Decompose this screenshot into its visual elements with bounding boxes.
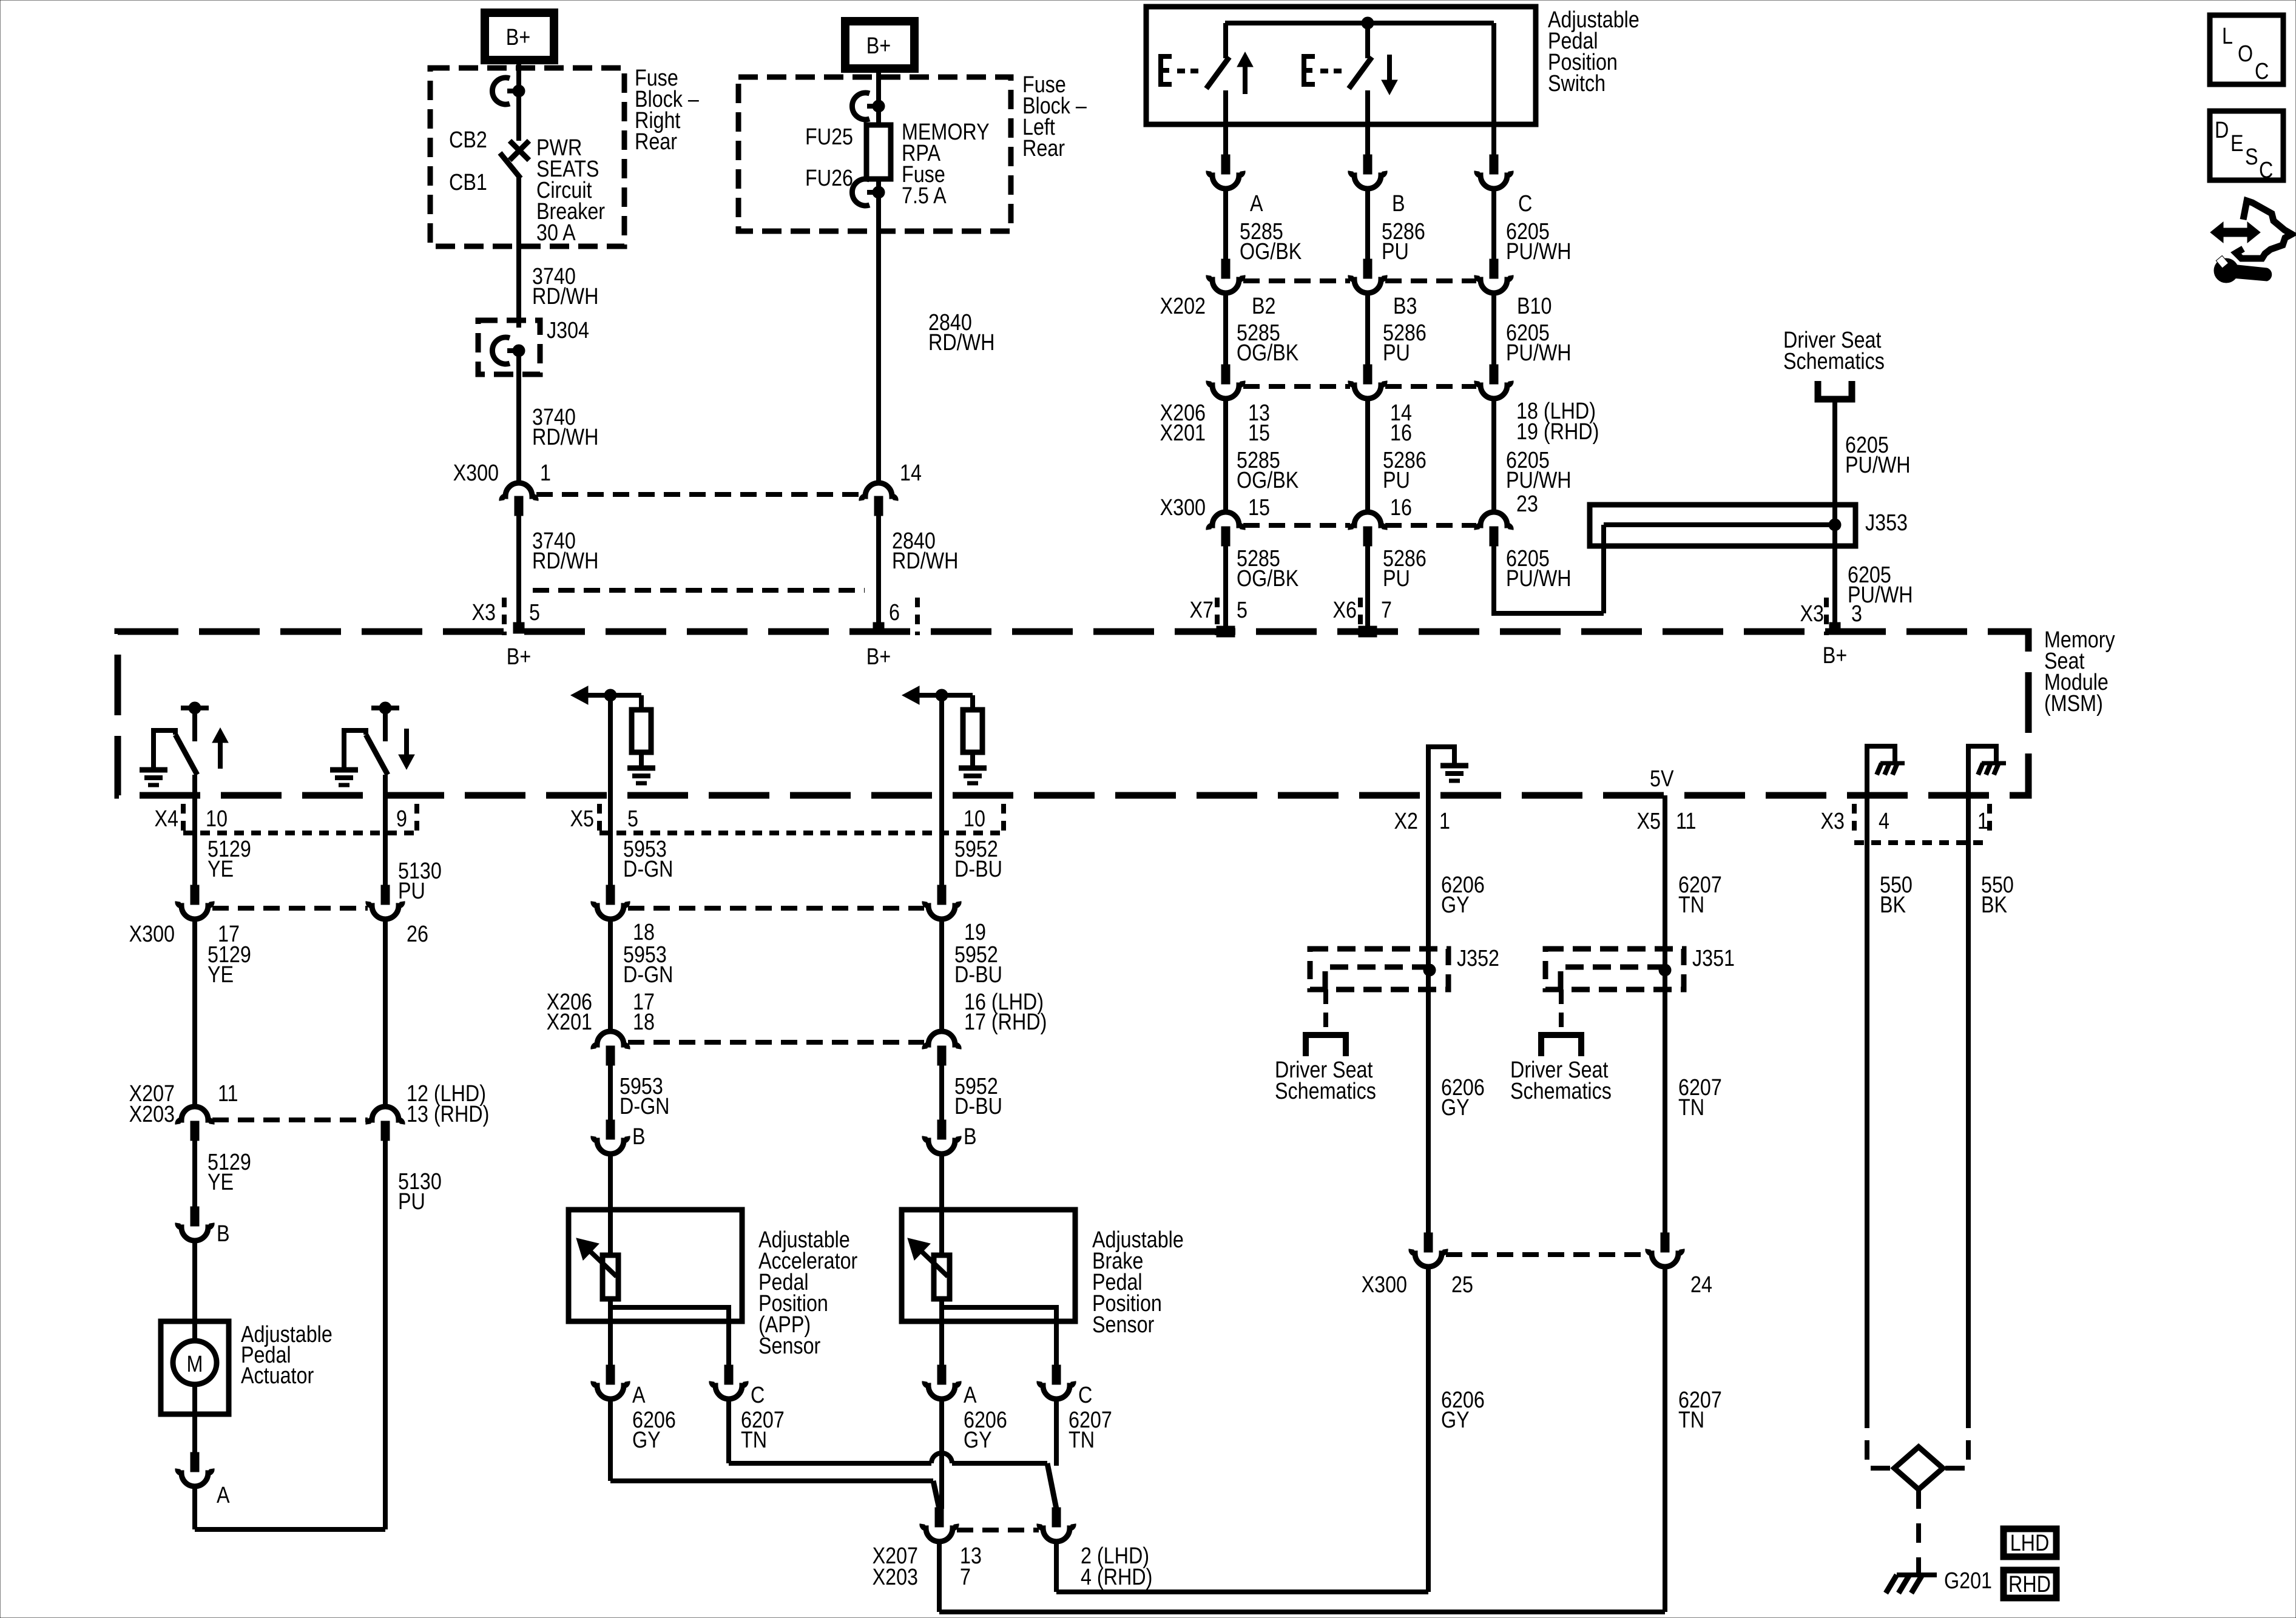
splice J351 outer dashed box: [1545, 949, 1684, 989]
svg-text:X300: X300: [1362, 1272, 1407, 1298]
svg-text:GY: GY: [964, 1428, 992, 1453]
wire X4-9 below MSM: [383, 795, 388, 889]
svg-text:30 A: 30 A: [536, 220, 576, 246]
switch 1 E terminal: [1161, 56, 1172, 84]
wire through J352: [1426, 950, 1431, 989]
svg-text:X5: X5: [1637, 809, 1661, 834]
svg-text:14: 14: [900, 460, 922, 486]
power symbol B+ (left rear): [845, 21, 914, 69]
fuse block - right rear dashed box: [430, 68, 624, 246]
wire through J353: [1832, 505, 1837, 546]
svg-text:L: L: [2222, 24, 2233, 49]
hop over brake A wire: [931, 1453, 952, 1463]
svg-text:C: C: [1518, 191, 1532, 217]
J304 dashed box: [478, 320, 540, 374]
X207-2 pin bar: [1052, 1508, 1061, 1527]
svg-text:X300: X300: [129, 922, 175, 947]
wire accel A to X207-13: [610, 1478, 933, 1483]
X202 pin B10 bar: [1490, 259, 1498, 278]
switch pin A wire: [1223, 124, 1228, 156]
wire B cup to accel sensor: [608, 1155, 613, 1210]
junction dot FU26: [873, 186, 885, 198]
svg-text:Rear: Rear: [1022, 136, 1065, 161]
splice diamond: [1894, 1447, 1943, 1489]
wire J353 to X3-3: [1832, 546, 1837, 629]
switch 2 contact wire: [1365, 90, 1370, 124]
pin bar X300-14: [874, 496, 883, 516]
svg-text:PU/WH: PU/WH: [1506, 468, 1572, 493]
svg-text:CB1: CB1: [449, 170, 487, 195]
svg-text:X3: X3: [1800, 601, 1824, 627]
switch 1 blade: [1206, 57, 1229, 89]
svg-text:11: 11: [218, 1081, 238, 1107]
wire pin 13 down: [937, 1543, 942, 1612]
up switch common elbow: [154, 730, 175, 770]
wire J351 to X300-24: [1663, 989, 1667, 1234]
brake pin C cup: [1039, 1381, 1073, 1399]
switch 2 down arrow: [1387, 55, 1392, 81]
X300 row dashed link 1-14: [536, 492, 861, 497]
down switch blade: [366, 735, 388, 775]
pin bar X300-1: [515, 496, 523, 516]
X202 pin B10 cup: [1477, 275, 1511, 293]
wire brake C down: [1054, 1400, 1059, 1466]
wire B10 to X206: [1491, 294, 1496, 366]
svg-text:18: 18: [633, 1010, 655, 1035]
wire 6205 into J353: [1604, 522, 1835, 527]
X300-23 dome: [1477, 512, 1511, 530]
wire accel C toward X207-2: [729, 1461, 931, 1466]
dashed drop X3-4 to splice: [1867, 1409, 1894, 1468]
switch pin C wire: [1491, 124, 1496, 156]
accel potentiometer rect: [603, 1255, 618, 1299]
svg-text:1: 1: [540, 460, 551, 486]
svg-text:X201: X201: [1160, 420, 1206, 446]
connector X206/X201 dashed row: [1243, 384, 1476, 389]
pin tick X7-5: [1217, 626, 1235, 637]
svg-text:4 (RHD): 4 (RHD): [1081, 1565, 1152, 1590]
driver output wire to border: [608, 695, 613, 795]
svg-text:X300: X300: [453, 460, 499, 486]
X300 row dashed link: [1243, 523, 1476, 528]
brake pin C bar: [1052, 1365, 1061, 1384]
svg-text:15: 15: [1248, 420, 1270, 446]
svg-text:9: 9: [396, 806, 407, 832]
X206 pin bar col A: [1221, 365, 1230, 384]
svg-text:X202: X202: [1160, 294, 1206, 319]
motor circle M: [192, 1321, 197, 1341]
svg-text:C: C: [1078, 1383, 1092, 1408]
switch 1 contact wire: [1223, 90, 1228, 124]
wire X206 to sensor B (brake): [939, 1065, 944, 1121]
switch 1 (pedal up) stem: [1223, 23, 1228, 58]
svg-text:LHD: LHD: [2010, 1531, 2050, 1556]
svg-text:YE: YE: [208, 962, 234, 988]
switch 2 blade: [1349, 57, 1372, 89]
X300 bottom dashed link 25-24: [1446, 1252, 1647, 1257]
accel pin C bar: [724, 1365, 733, 1384]
MSM switch (up) T-bar terminal: [181, 706, 209, 710]
separator X3-1: [1987, 804, 1992, 834]
wire B cup to brake sensor: [939, 1155, 944, 1210]
brake potentiometer wire in: [939, 1210, 944, 1255]
svg-text:PU/WH: PU/WH: [1506, 566, 1572, 592]
svg-text:B+: B+: [866, 33, 891, 59]
DESC box: [2210, 111, 2283, 180]
down switch wire to border: [383, 775, 388, 795]
svg-text:B: B: [632, 1124, 646, 1150]
svg-text:Schematics: Schematics: [1275, 1079, 1376, 1104]
splice J351 inner dashed path: [1561, 967, 1663, 989]
X206 pin cup col B: [1351, 381, 1385, 399]
X300 row dashed link 17-26: [212, 906, 368, 911]
wire B to X202: [1365, 189, 1370, 261]
svg-text:A: A: [217, 1483, 230, 1508]
driver link to resistor: [610, 693, 641, 698]
svg-text:RD/WH: RD/WH: [532, 284, 598, 309]
svg-text:B: B: [964, 1124, 977, 1150]
X300-15 pin bar: [1221, 527, 1230, 546]
wire X300-14 to X3-6: [876, 516, 881, 629]
wire X300-15 to X7-5: [1223, 546, 1228, 629]
resistor to ground: [963, 710, 982, 752]
wire X3-1 550 BK: [1966, 795, 1971, 1409]
svg-text:X4: X4: [155, 806, 178, 832]
svg-text:3: 3: [1851, 601, 1862, 627]
brake pin A cup: [925, 1381, 959, 1399]
wire brake A down to pin 13: [939, 1400, 944, 1509]
svg-text:7: 7: [1381, 598, 1392, 623]
junction dot output driver: [604, 689, 616, 701]
ground G201 chassis symbol: [1897, 1572, 1937, 1577]
svg-text:Sensor: Sensor: [758, 1333, 821, 1359]
svg-text:19: 19: [964, 920, 986, 945]
adjustable pedal position switch box: [1146, 7, 1536, 124]
X206-17 pin bar: [606, 1046, 615, 1065]
X300-18 cup: [593, 902, 627, 919]
junction dot on rail: [1362, 17, 1374, 29]
wire X300-26 to X207: [383, 920, 388, 1105]
dashed drop splice to G201: [1916, 1489, 1921, 1572]
svg-text:1: 1: [1439, 809, 1450, 834]
svg-text:B+: B+: [506, 25, 530, 50]
X207 bottom dashed link: [957, 1528, 1039, 1532]
svg-text:A: A: [964, 1383, 977, 1408]
svg-text:RD/WH: RD/WH: [928, 330, 994, 356]
wire X207-11 to actuator B: [192, 1141, 197, 1207]
wire pin 2 down: [1054, 1543, 1059, 1592]
X206 row dashed link (sensors): [628, 1040, 924, 1045]
X206 pin bar col B: [1363, 365, 1372, 384]
svg-text:Sensor: Sensor: [1092, 1312, 1155, 1338]
svg-text:RD/WH: RD/WH: [532, 548, 598, 574]
svg-text:TN: TN: [1678, 1095, 1704, 1121]
svg-text:B: B: [217, 1221, 230, 1247]
X300-26 pin bar: [381, 885, 390, 905]
svg-text:23: 23: [1516, 491, 1538, 517]
svg-text:BK: BK: [1880, 892, 1906, 918]
svg-text:OG/BK: OG/BK: [1237, 468, 1299, 493]
svg-text:19 (RHD): 19 (RHD): [1516, 419, 1599, 445]
svg-text:Rear: Rear: [635, 129, 677, 155]
switch 2 (pedal down) stem: [1365, 23, 1370, 58]
svg-text:10: 10: [964, 806, 985, 832]
X206-16 pin bar: [937, 1046, 946, 1065]
separator X3-6: [915, 598, 920, 635]
svg-text:5: 5: [1237, 598, 1248, 623]
actuator pin A bar: [191, 1452, 199, 1472]
up arrow (MSM switch): [218, 741, 223, 769]
brake pot elbow to pin C: [942, 1299, 1056, 1366]
svg-text:X6: X6: [1333, 598, 1357, 623]
circuit breaker blade CB1-CB2: [500, 153, 521, 178]
wire X300-24 down: [1663, 1268, 1667, 1612]
output driver arrow (wire x=1552): [902, 686, 919, 704]
X300-19 pin bar: [937, 885, 946, 905]
brake sensor pin B cup: [925, 1136, 959, 1154]
junction dot J351: [1659, 964, 1671, 976]
wire X4-10 below MSM: [192, 795, 197, 889]
MSM ground at X2-1: [1428, 747, 1454, 795]
wire actuator to pin A: [192, 1414, 197, 1454]
wire B2 to X206: [1223, 294, 1228, 366]
svg-text:GY: GY: [1441, 1095, 1470, 1121]
svg-text:PU: PU: [1382, 239, 1409, 265]
J352 dashed stub down: [1323, 989, 1328, 1030]
driver seat schematics bracket: [1818, 381, 1852, 399]
svg-text:Schematics: Schematics: [1510, 1079, 1612, 1104]
switch pin B bar: [1363, 155, 1372, 174]
svg-text:RD/WH: RD/WH: [532, 425, 598, 450]
svg-text:BK: BK: [1981, 892, 2008, 918]
svg-text:D-BU: D-BU: [954, 857, 1002, 882]
switch pin B wire: [1365, 124, 1370, 156]
wire B3 to X206: [1365, 294, 1370, 366]
X300-15 dome: [1209, 512, 1243, 530]
wire FU26 to X300 pin 14: [876, 192, 881, 483]
MSM switch (down) T-bar terminal: [371, 706, 399, 710]
X206/X201 dome (17/18): [593, 1031, 627, 1049]
switch pin A bar: [1221, 155, 1230, 174]
svg-text:GY: GY: [1441, 892, 1470, 918]
X300-23 pin bar: [1490, 527, 1498, 546]
junction dot down switch: [379, 702, 391, 714]
wire through J351: [1663, 950, 1667, 989]
switch 2 E terminal: [1304, 56, 1315, 84]
svg-text:7: 7: [960, 1565, 971, 1590]
actuator pin B bar: [191, 1207, 199, 1226]
brake potentiometer rect: [934, 1255, 950, 1299]
J304 terminal hook: [492, 337, 510, 364]
junction dot output driver: [936, 689, 948, 701]
switch pin C internal wire: [1491, 23, 1496, 124]
wrench icon: [2214, 258, 2238, 283]
X300-17 cup: [178, 902, 212, 919]
junction dot CB2 terminal: [513, 85, 525, 97]
svg-text:S: S: [2245, 144, 2258, 170]
wire to X300-23: [1491, 400, 1496, 511]
svg-text:E: E: [2230, 131, 2244, 157]
circuit breaker X contact: [510, 141, 529, 160]
adjustable accelerator pedal position sensor box: [569, 1210, 742, 1321]
pin tick X6-7: [1359, 626, 1377, 637]
svg-text:PU: PU: [1383, 566, 1410, 592]
svg-text:X5: X5: [570, 806, 594, 832]
X300-16 dome: [1351, 512, 1385, 530]
connector X3 dashed bottom: [1854, 840, 1985, 845]
wire X300-16 to X6-7: [1365, 546, 1370, 629]
svg-text:1: 1: [1977, 809, 1988, 834]
actuator pin A cup: [178, 1469, 212, 1486]
up switch blade: [175, 735, 197, 775]
X300-26 cup: [368, 902, 402, 919]
accel pin C cup: [712, 1381, 746, 1399]
J352 reference bracket: [1306, 1035, 1346, 1056]
svg-text:X3: X3: [1821, 809, 1845, 834]
svg-text:X201: X201: [547, 1010, 592, 1035]
wire X300-17 to X207: [192, 920, 197, 1105]
X300-25 cup: [1411, 1249, 1445, 1267]
J351 reference bracket: [1541, 1035, 1581, 1056]
connector X3 row dashed link 5-6: [533, 588, 865, 593]
X207-13 cup: [922, 1524, 956, 1542]
up switch ground: [140, 767, 167, 773]
wire X206 to sensor B (accel): [608, 1065, 613, 1121]
svg-text:16: 16: [1390, 420, 1412, 446]
svg-text:PU: PU: [1383, 340, 1410, 366]
svg-text:D-GN: D-GN: [620, 1094, 670, 1119]
wire accel A down: [608, 1400, 613, 1481]
wire 6205 riser to J353: [1601, 525, 1606, 613]
wire J304 to X300 pin 1: [516, 351, 521, 483]
driver link to resistor: [942, 693, 973, 698]
svg-text:16: 16: [1390, 495, 1412, 521]
svg-text:Schematics: Schematics: [1783, 349, 1885, 374]
separator X4-9: [414, 804, 419, 834]
svg-text:PU/WH: PU/WH: [1506, 340, 1572, 366]
wire X300-19 to X206: [939, 920, 944, 1031]
accel pot to pin A: [608, 1299, 613, 1366]
fuse block - left rear dashed box: [738, 77, 1011, 231]
svg-text:B+: B+: [1823, 643, 1847, 669]
pin tick X3-3 at MSM border: [1829, 622, 1840, 633]
svg-text:13 (RHD): 13 (RHD): [407, 1102, 489, 1127]
svg-text:X203: X203: [873, 1565, 918, 1590]
X206/X201 dome (16/17): [925, 1031, 959, 1049]
svg-text:RHD: RHD: [2008, 1572, 2051, 1597]
accel potentiometer arrow: [590, 1251, 616, 1276]
link actuator A to X4-9 wire: [195, 1527, 385, 1532]
wire actuator A to 5130 link: [192, 1488, 197, 1529]
separator X3-4: [1852, 804, 1857, 834]
double arrow icon: [2210, 222, 2260, 243]
down switch ground: [330, 767, 358, 773]
down switch common elbow: [344, 730, 366, 770]
car profile icon: [2236, 201, 2292, 258]
brake pot to pin A: [939, 1299, 944, 1366]
junction dot J352: [1423, 964, 1436, 976]
svg-text:O: O: [2238, 41, 2253, 67]
separator X5-5: [597, 804, 602, 834]
svg-text:B10: B10: [1517, 294, 1551, 319]
wire X5-5 below MSM: [608, 795, 613, 889]
svg-text:FU25: FU25: [805, 124, 853, 150]
X202 pin B3 bar: [1363, 259, 1372, 278]
svg-text:X3: X3: [472, 600, 496, 625]
wire X2-1 below MSM: [1426, 795, 1431, 950]
svg-text:26: 26: [407, 922, 428, 947]
driver output wire to border: [939, 695, 944, 795]
jog accel A to pin 13: [933, 1481, 939, 1509]
svg-text:FU26: FU26: [805, 166, 853, 191]
separator X3-3: [1824, 598, 1829, 635]
svg-text:PU: PU: [398, 1189, 425, 1215]
wire B cup to actuator box: [192, 1242, 197, 1321]
svg-text:X2: X2: [1394, 809, 1418, 834]
X300-24 cup: [1648, 1249, 1682, 1267]
separator X4-10: [181, 804, 186, 834]
svg-text:B3: B3: [1393, 294, 1417, 319]
power symbol B+ (right rear): [485, 13, 554, 60]
wire A to X202: [1223, 189, 1228, 261]
svg-text:C: C: [751, 1383, 765, 1408]
accel pin A cup: [593, 1381, 627, 1399]
wire X300-18 to X206: [608, 920, 613, 1031]
splice J353 box: [1590, 505, 1855, 546]
X207-13 pin bar: [935, 1508, 944, 1527]
svg-text:D-GN: D-GN: [623, 857, 674, 882]
connector X4 dashed bottom: [183, 831, 417, 835]
svg-text:M: M: [187, 1352, 203, 1377]
svg-text:4: 4: [1879, 809, 1889, 834]
X202 pin B3 cup: [1351, 275, 1385, 293]
MSM chassis ground at X3-4: [1867, 746, 1895, 795]
svg-text:PU: PU: [398, 878, 425, 904]
svg-text:GY: GY: [1441, 1407, 1470, 1433]
brake sensor pin B bar: [937, 1120, 946, 1139]
svg-text:B: B: [1392, 191, 1405, 217]
svg-text:CB2: CB2: [449, 127, 487, 153]
svg-text:X7: X7: [1190, 598, 1214, 623]
up switch fixed contact stem: [192, 708, 197, 741]
X202 pin B2 cup: [1209, 275, 1243, 293]
X207 row dashed link: [212, 1117, 368, 1122]
X206 pin cup col C: [1477, 381, 1511, 399]
svg-text:B+: B+: [507, 644, 531, 670]
wire B+ to fuse block: [876, 69, 881, 106]
svg-text:A: A: [632, 1383, 646, 1408]
down arrow (MSM switch): [404, 729, 409, 756]
svg-text:YE: YE: [208, 1170, 234, 1195]
accel sensor pin B bar: [606, 1120, 615, 1139]
wire X207-12 down to link: [383, 1141, 388, 1529]
svg-text:C: C: [2259, 158, 2273, 183]
X300-17 pin bar: [191, 885, 199, 905]
LHD box: [2004, 1529, 2056, 1557]
svg-text:18: 18: [633, 920, 655, 945]
svg-text:TN: TN: [1678, 1407, 1704, 1433]
CB2 terminal hook: [492, 78, 510, 104]
svg-text:D-BU: D-BU: [954, 962, 1002, 988]
svg-text:J352: J352: [1457, 946, 1499, 971]
X207/X203 dome (pin 12/13): [368, 1107, 402, 1124]
svg-text:10: 10: [206, 806, 228, 832]
svg-text:PU: PU: [1383, 468, 1410, 493]
memory seat module dashed box: [118, 632, 2028, 795]
X300-16 pin bar: [1363, 527, 1372, 546]
wire accel C down: [726, 1400, 731, 1463]
wire bracket to J353: [1832, 399, 1837, 505]
